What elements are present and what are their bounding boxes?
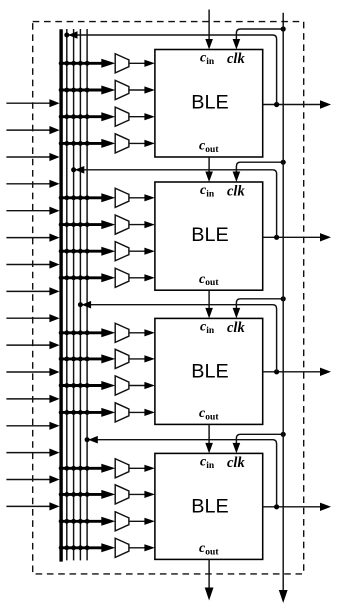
wire: mux M14 output to BLE [129, 493, 146, 495]
input bus (thick vertical) [59, 29, 62, 561]
node: junction dot [64, 357, 69, 362]
node: junction dot [64, 61, 69, 66]
node: junction dot [59, 114, 64, 119]
wire: BLE4 output to cluster output [263, 506, 321, 508]
wire: cluster input 14 [6, 452, 51, 454]
mux M5 [115, 188, 129, 207]
wire: mux M9 output to BLE [129, 332, 146, 334]
wire: BLE2 feedback to net N2 [75, 170, 277, 238]
node: junction dot [85, 61, 90, 66]
wire: mux M3 output to BLE [129, 116, 146, 118]
wire: mux M8 output to BLE [129, 277, 146, 279]
node: clk junction dot [281, 296, 286, 301]
wire: mux M12 input line [60, 411, 104, 414]
node: junction dot [78, 466, 83, 471]
node: junction dot [78, 410, 83, 415]
node: junction dot [85, 466, 90, 471]
node: junction dot [59, 275, 64, 280]
wire: cluster input 12 [6, 398, 51, 400]
wire: mux M4 output to BLE [129, 142, 146, 144]
mux M6 [115, 215, 129, 234]
node: junction dot [59, 383, 64, 388]
node: feedback junction dot [85, 437, 90, 442]
wire: cluster input 8 [6, 290, 51, 292]
svg-text:BLE: BLE [191, 92, 228, 114]
svg-text:in: in [206, 189, 215, 199]
wire: cluster input 15 [6, 479, 51, 481]
node: feedback junction dot [78, 302, 83, 307]
wire: mux M16 input line [60, 546, 104, 549]
node: junction dot [59, 492, 64, 497]
svg-text:in: in [206, 461, 215, 471]
wire: BLE1 feedback to net N1 [68, 35, 276, 105]
svg-text:in: in [206, 57, 215, 67]
wire: carry chain c_out BLE2 to c_in BLE3 [208, 290, 210, 309]
node: output junction dot [274, 369, 279, 374]
wire: clk tap to BLE1 [236, 29, 283, 41]
node: junction dot [78, 330, 83, 335]
node: junction dot [71, 545, 76, 550]
wire: cluster input 1 [6, 102, 51, 104]
node: junction dot [78, 88, 83, 93]
node: output junction dot [274, 102, 279, 107]
mux M13 [115, 459, 129, 478]
svg-text:in: in [206, 326, 215, 336]
BLE U3 [155, 318, 263, 424]
node: junction dot [71, 114, 76, 119]
node: junction dot [64, 330, 69, 335]
wire: mux M6 output to BLE [129, 224, 146, 226]
wire: mux M7 output to BLE [129, 250, 146, 252]
node: junction dot [85, 545, 90, 550]
svg-text:out: out [205, 145, 219, 155]
wire: mux M1 input line [60, 62, 104, 65]
node: junction dot [59, 410, 64, 415]
node: junction dot [64, 88, 69, 93]
wire: mux M10 output to BLE [129, 358, 146, 360]
node: junction dot [78, 222, 83, 227]
wire: mux M4 input line [60, 142, 104, 145]
node: junction dot [59, 222, 64, 227]
svg-text:out: out [205, 278, 219, 288]
node: clk junction dot [281, 160, 286, 165]
node: junction dot [78, 357, 83, 362]
node: junction dot [71, 249, 76, 254]
wire: mux M13 output to BLE [129, 467, 146, 469]
wire: cluster input 13 [6, 425, 51, 427]
node: junction dot [78, 545, 83, 550]
wire: mux M10 input line [60, 357, 104, 360]
wire: carry input c_in from top [208, 10, 210, 41]
wire: mux M11 input line [60, 384, 104, 387]
mux M16 [115, 538, 129, 557]
wire: cluster input 7 [6, 264, 51, 266]
node: junction dot [85, 141, 90, 146]
node: junction dot [78, 141, 83, 146]
node: junction dot [78, 383, 83, 388]
mux M2 [115, 80, 129, 99]
node: junction dot [85, 88, 90, 93]
wire: cluster input 11 [6, 371, 51, 373]
node: junction dot [85, 249, 90, 254]
node: junction dot [71, 466, 76, 471]
wire: clk tap to BLE4 [236, 434, 283, 444]
node: junction dot [59, 249, 64, 254]
node: junction dot [64, 466, 69, 471]
wire: mux M7 input line [60, 250, 104, 253]
node: output junction dot [274, 504, 279, 509]
wire: BLE2 output to cluster output [263, 236, 321, 238]
node: junction dot [85, 195, 90, 200]
node: junction dot [71, 222, 76, 227]
mux M9 [115, 323, 129, 342]
wire: mux M8 input line [60, 276, 104, 279]
node: junction dot [64, 195, 69, 200]
node: junction dot [59, 141, 64, 146]
node: junction dot [85, 330, 90, 335]
node: clk junction dot [281, 432, 286, 437]
wire: mux M5 input line [60, 196, 104, 199]
node: junction dot [85, 222, 90, 227]
svg-text:clk: clk [227, 183, 245, 199]
wire: BLE3 output to cluster output [263, 371, 321, 373]
node: junction dot [78, 492, 83, 497]
wire: cluster input 4 [6, 183, 51, 185]
node: junction dot [71, 519, 76, 524]
wire: mux M3 input line [60, 115, 104, 118]
svg-text:clk: clk [227, 51, 245, 67]
feedback net line N1 (vertical) [66, 29, 68, 560]
node: junction dot [71, 195, 76, 200]
BLE U4 [155, 453, 263, 559]
BLE U1 [155, 50, 263, 158]
node: junction dot [85, 275, 90, 280]
wire: mux M9 input line [60, 331, 104, 334]
node: junction dot [64, 114, 69, 119]
node: junction dot [71, 330, 76, 335]
wire: carry chain c_out BLE3 to c_in BLE4 [208, 424, 210, 444]
node: junction dot [78, 114, 83, 119]
mux M12 [115, 403, 129, 422]
node: feedback junction dot [71, 167, 76, 172]
node: junction dot [85, 114, 90, 119]
mux M15 [115, 512, 129, 531]
node: junction dot [78, 519, 83, 524]
node: junction dot [78, 195, 83, 200]
node: junction dot [64, 545, 69, 550]
wire: mux M16 output to BLE [129, 547, 146, 549]
wire: cluster input 10 [6, 344, 51, 346]
node: junction dot [59, 357, 64, 362]
wire: mux M14 input line [60, 493, 104, 496]
wire: mux M12 output to BLE [129, 411, 146, 413]
node: junction dot [59, 195, 64, 200]
wire: cluster input 5 [6, 210, 51, 212]
wire: mux M13 input line [60, 467, 104, 470]
mux M7 [115, 242, 129, 261]
node: junction dot [64, 519, 69, 524]
wire: mux M15 input line [60, 520, 104, 523]
node: feedback junction dot [64, 33, 69, 38]
node: junction dot [71, 275, 76, 280]
wire: carry chain c_out BLE1 to c_in BLE2 [208, 157, 210, 173]
node: junction dot [71, 88, 76, 93]
node: junction dot [59, 88, 64, 93]
node: junction dot [64, 275, 69, 280]
node: junction dot [59, 519, 64, 524]
wire: mux M15 output to BLE [129, 520, 146, 522]
wire: mux M2 input line [60, 89, 104, 92]
wire: clk trunk (vertical, top to bottom) [282, 13, 284, 591]
node: junction dot [78, 249, 83, 254]
mux M8 [115, 268, 129, 287]
node: junction dot [71, 492, 76, 497]
feedback net line N4 (vertical) [86, 29, 88, 560]
node: output junction dot [274, 235, 279, 240]
mux M4 [115, 134, 129, 153]
svg-text:BLE: BLE [191, 495, 228, 517]
node: junction dot [71, 357, 76, 362]
node: junction dot [64, 492, 69, 497]
node: junction dot [59, 61, 64, 66]
svg-text:out: out [205, 412, 219, 422]
wire: cluster input 9 [6, 317, 51, 319]
node: junction dot [59, 545, 64, 550]
node: junction dot [71, 383, 76, 388]
wire: BLE4 feedback to net N4 [89, 440, 277, 507]
wire: carry output c_out exits bottom [208, 559, 210, 588]
wire: cluster input 3 [6, 156, 51, 158]
wire: cluster input 2 [6, 129, 51, 131]
node: junction dot [85, 383, 90, 388]
svg-text:BLE: BLE [191, 360, 228, 382]
wire: mux M2 output to BLE [129, 89, 146, 91]
wire: BLE1 output to cluster output [263, 104, 321, 106]
node: clk junction dot [281, 26, 286, 31]
BLE U2 [155, 182, 263, 290]
svg-text:clk: clk [227, 455, 245, 471]
mux M11 [115, 376, 129, 395]
node: junction dot [71, 141, 76, 146]
node: junction dot [85, 519, 90, 524]
node: junction dot [64, 249, 69, 254]
node: junction dot [59, 466, 64, 471]
wire: mux M6 input line [60, 223, 104, 226]
wire: cluster input 16 [6, 505, 51, 507]
svg-text:out: out [205, 547, 219, 557]
mux M14 [115, 485, 129, 504]
wire: clk tap to BLE2 [236, 162, 283, 173]
svg-text:BLE: BLE [191, 224, 228, 246]
wire: clk tap to BLE3 [236, 299, 283, 310]
node: junction dot [85, 357, 90, 362]
mux M3 [115, 107, 129, 126]
wire: BLE3 feedback to net N3 [82, 305, 277, 372]
node: junction dot [59, 330, 64, 335]
svg-text:clk: clk [227, 320, 245, 336]
mux M1 [115, 54, 129, 73]
node: junction dot [64, 410, 69, 415]
node: junction dot [85, 492, 90, 497]
node: junction dot [71, 410, 76, 415]
node: junction dot [78, 61, 83, 66]
node: junction dot [64, 383, 69, 388]
wire: mux M11 output to BLE [129, 385, 146, 387]
wire: mux M5 output to BLE [129, 197, 146, 199]
wire: mux M1 output to BLE [129, 62, 146, 64]
feedback net line N2 (vertical) [73, 29, 75, 560]
feedback net line N3 (vertical) [79, 29, 81, 560]
node: junction dot [78, 275, 83, 280]
node: junction dot [85, 410, 90, 415]
mux M10 [115, 349, 129, 368]
cluster boundary (dashed) [33, 22, 304, 574]
node: junction dot [71, 61, 76, 66]
node: junction dot [64, 141, 69, 146]
wire: cluster input 6 [6, 237, 51, 239]
node: junction dot [64, 222, 69, 227]
